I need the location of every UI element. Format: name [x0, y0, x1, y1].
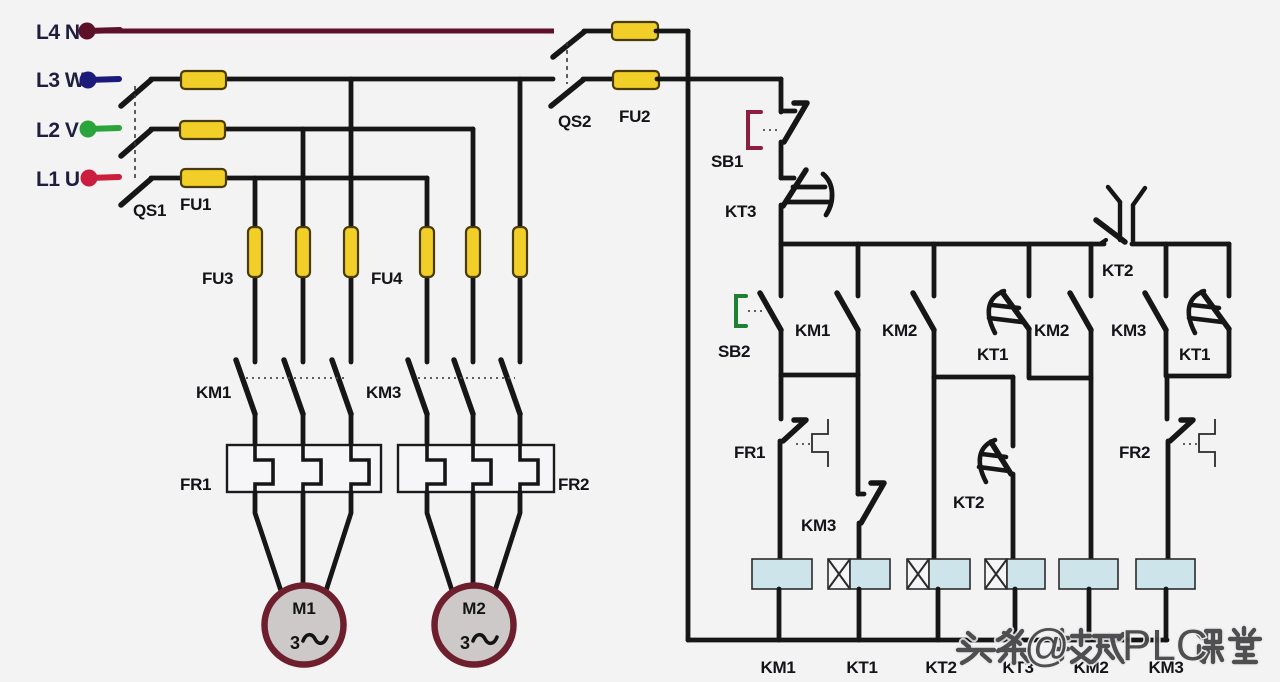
- wire M1 phase c vertical: [349, 79, 354, 362]
- wire bottom rail: [688, 638, 1167, 643]
- wire parallel bar1: [781, 373, 858, 378]
- wire V row: [151, 127, 473, 132]
- timer contact KT2 delayed NO: [979, 377, 1013, 482]
- pushbutton SB2 contact: [760, 244, 781, 330]
- wire SB2 to node B1: [779, 330, 784, 376]
- contact KM3 aux NC: [858, 483, 884, 523]
- coil KM1: [752, 559, 812, 589]
- pushbutton SB1 contact: [781, 103, 807, 142]
- wire W row: [151, 77, 553, 82]
- svg-text:M1: M1: [292, 599, 316, 618]
- svg-text:FR2: FR2: [1119, 443, 1150, 462]
- wire KM1 branch down: [856, 375, 861, 494]
- svg-text:KT2: KT2: [953, 493, 984, 512]
- fuse FU4 pole b: [466, 227, 480, 277]
- wire control column top: [779, 79, 784, 112]
- pushbutton SB2 actuator: [736, 296, 746, 326]
- coil KT1: [828, 559, 890, 589]
- svg-text:KT3: KT3: [725, 202, 756, 221]
- contactor KM3 main pole b: [454, 360, 473, 445]
- fuse FU3 pole c: [344, 227, 358, 277]
- wire control bus left: [781, 242, 1104, 247]
- contact KM3 aux NO: [1145, 244, 1166, 376]
- contactor KM1 main pole c: [332, 360, 351, 445]
- svg-text:KM2: KM2: [882, 321, 917, 340]
- svg-text:KT1: KT1: [977, 345, 1008, 364]
- timer contact KT2 on bus delayed NC: [1096, 187, 1145, 244]
- wire coil KT3 to rail: [1013, 589, 1018, 640]
- svg-text:KM1: KM1: [196, 383, 231, 402]
- svg-text:FU3: FU3: [202, 269, 233, 288]
- motor M2: [435, 586, 514, 665]
- svg-text:KT2: KT2: [1102, 261, 1133, 280]
- switch QS2 linkage: [566, 42, 568, 84]
- svg-text:M2: M2: [462, 599, 486, 618]
- svg-text:FR1: FR1: [734, 443, 765, 462]
- wire M2 phase c vertical: [518, 79, 523, 362]
- wire parallel bar3: [1167, 374, 1229, 379]
- wire KT1 right to bar3: [1227, 329, 1232, 376]
- fuse FU1 pole U: [181, 169, 226, 187]
- svg-text:KM1: KM1: [795, 321, 830, 340]
- fuse FU4 pole a: [420, 227, 434, 277]
- wire FR1 to coil KM1: [778, 441, 783, 559]
- thermal contact FR2 NC: [1167, 376, 1215, 467]
- switch QS2 blade N: [553, 32, 584, 57]
- timer contact KT3 delayed NC: [781, 170, 832, 215]
- pushbutton SB1 actuator: [748, 112, 761, 148]
- svg-text:FU4: FU4: [371, 269, 403, 288]
- wire coil KT1 to rail: [857, 589, 862, 640]
- wire KT3 to bus: [779, 205, 784, 244]
- motor M1: [265, 586, 344, 665]
- svg-text:3: 3: [460, 633, 470, 653]
- svg-text:KM1: KM1: [761, 658, 796, 677]
- svg-text:L2 V: L2 V: [36, 119, 79, 142]
- fuse FU4 pole c: [513, 227, 527, 277]
- terminal L2: [80, 121, 120, 138]
- thermal contact FR1 NC: [781, 376, 828, 467]
- svg-text:SB2: SB2: [718, 342, 750, 361]
- switch QS1 blade W: [121, 80, 151, 106]
- svg-text:PLC: PLC: [1122, 621, 1208, 670]
- svg-text:KT2: KT2: [925, 658, 956, 677]
- wire coil KM3 to rail: [1164, 589, 1169, 640]
- fuse FU2 bottom: [613, 71, 659, 89]
- wire control bus right: [1132, 242, 1229, 247]
- wire FU2 top to left control rail: [656, 29, 688, 34]
- svg-text:KT1: KT1: [846, 658, 877, 677]
- fuse FU1 pole W: [181, 71, 226, 89]
- wire L4 N line: [87, 29, 554, 34]
- contactor KM1 main linkage: [246, 377, 346, 379]
- coil KM2: [1059, 559, 1118, 589]
- wire KT2 contact to coil KT3: [1011, 474, 1016, 559]
- wire M2 phase a vertical: [425, 178, 430, 362]
- contact KM2 aux NO right: [1070, 244, 1091, 559]
- svg-text:KT1: KT1: [1179, 345, 1210, 364]
- svg-text:FU2: FU2: [619, 107, 650, 126]
- coil KT2: [907, 559, 970, 589]
- thermal relay FR2 heater box: [398, 445, 554, 492]
- switch QS2 blade W: [551, 80, 583, 106]
- pushbutton SB2 link: [748, 310, 766, 312]
- svg-text:KM3: KM3: [366, 383, 401, 402]
- wire KM3 aux to coil KT1: [857, 523, 862, 559]
- contactor KM3 main pole c: [501, 360, 520, 445]
- svg-text:QS1: QS1: [133, 201, 166, 220]
- svg-text:L1 U: L1 U: [36, 168, 80, 191]
- fuse FU3 pole a: [248, 227, 262, 277]
- svg-text:3: 3: [290, 633, 300, 653]
- wire M1 leads: [255, 492, 351, 600]
- timer contact KT1 delayed NO left: [989, 244, 1029, 333]
- wire FR2 to coil KM3: [1166, 441, 1171, 559]
- coil KT3: [985, 559, 1045, 589]
- wire KT1 branch elbow: [1029, 329, 1091, 378]
- fuse FU3 pole b: [296, 227, 310, 277]
- wire coil KM1 to rail: [777, 589, 782, 640]
- wire M1 phase b vertical: [301, 129, 306, 362]
- wire QS2 to FU2 bottom: [583, 77, 615, 82]
- contactor KM1 main pole b: [284, 360, 303, 445]
- fuse FU2 top: [612, 22, 658, 40]
- contactor KM1 main pole a: [236, 360, 255, 445]
- svg-text:SB1: SB1: [711, 152, 743, 171]
- switch QS1 blade U: [121, 179, 151, 205]
- contactor KM3 main pole a: [408, 360, 427, 445]
- wire M1 phase a vertical: [253, 178, 258, 362]
- watermark 头条@技成PLC课堂: [958, 628, 1260, 663]
- coil KM3: [1136, 559, 1195, 589]
- svg-text:KM3: KM3: [1111, 321, 1146, 340]
- contact KM1 aux NO: [837, 244, 858, 375]
- svg-text:L3 W: L3 W: [36, 69, 85, 92]
- svg-text:FR2: FR2: [558, 475, 589, 494]
- wire SB1 to KT3: [779, 142, 784, 178]
- contact KM2 aux NO left: [913, 244, 934, 377]
- contactor KM3 main linkage: [418, 377, 515, 379]
- wire coil KT2 to rail: [936, 589, 941, 640]
- wire QS2 to FU2 top: [584, 29, 614, 34]
- switch QS1 blade V: [121, 130, 151, 156]
- svg-text:@: @: [1024, 620, 1070, 671]
- pushbutton SB1 link: [763, 129, 780, 131]
- svg-text:FR1: FR1: [180, 475, 211, 494]
- svg-text:KM3: KM3: [801, 516, 836, 535]
- timer contact KT1 delayed NO right: [1189, 244, 1229, 333]
- wire M2 phase b vertical: [471, 129, 476, 362]
- wire KM2 branch to coil KT2: [932, 377, 937, 559]
- svg-text:L4 N: L4 N: [36, 21, 80, 44]
- wire left control rail vertical: [686, 31, 691, 640]
- wire parallel bar2: [934, 375, 1013, 380]
- wire coil KM2 to rail: [1087, 589, 1092, 640]
- terminal L3: [80, 72, 120, 89]
- wire FU2 bottom to SB1 column: [657, 77, 781, 82]
- svg-text:FU1: FU1: [180, 195, 211, 214]
- wire U row: [151, 176, 427, 181]
- terminal L1: [81, 170, 120, 187]
- thermal relay FR1 heater box: [227, 445, 381, 492]
- switch QS1 linkage: [134, 86, 136, 182]
- svg-text:KM2: KM2: [1034, 321, 1069, 340]
- terminal L4: [79, 23, 121, 40]
- fuse FU1 pole V: [180, 121, 225, 139]
- wire M2 leads: [427, 492, 520, 600]
- svg-text:QS2: QS2: [558, 112, 591, 131]
